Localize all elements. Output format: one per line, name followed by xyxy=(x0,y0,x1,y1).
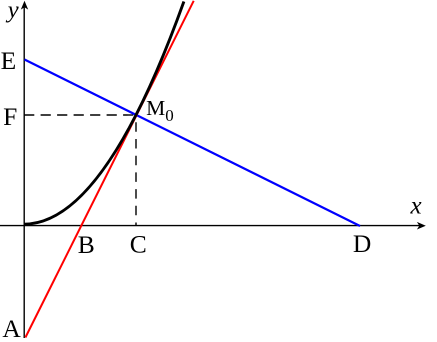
dashed line M0 to C xyxy=(135,122,137,225)
svg-text:y: y xyxy=(5,0,19,24)
x-axis xyxy=(0,225,420,227)
y-axis arrow xyxy=(21,1,28,10)
svg-text:D: D xyxy=(353,229,371,258)
x-axis arrow xyxy=(417,222,426,230)
blue line E-M0-D xyxy=(25,60,361,227)
svg-text:F: F xyxy=(3,102,17,131)
red tangent line A-B-M0 xyxy=(25,1,193,338)
svg-text:x: x xyxy=(410,192,422,219)
dashed line F to M0 xyxy=(24,114,136,116)
svg-text:0: 0 xyxy=(165,106,174,125)
curve y=f(x) (parabola through M0) xyxy=(24,2,184,225)
svg-text:E: E xyxy=(1,46,17,75)
svg-text:A: A xyxy=(2,314,21,342)
svg-text:B: B xyxy=(78,230,95,259)
svg-text:M: M xyxy=(146,96,165,120)
svg-text:C: C xyxy=(130,229,147,258)
y-axis xyxy=(23,7,25,338)
